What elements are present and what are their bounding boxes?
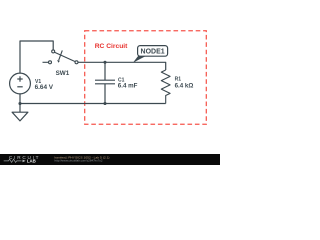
junction node dot at capacitor bottom bbox=[103, 102, 106, 105]
svg-text:RC Circuit: RC Circuit bbox=[95, 43, 128, 50]
svg-text:http://www.circuitlab.com/c284: http://www.circuitlab.com/c2847hx7u2 bbox=[55, 159, 103, 163]
ground bbox=[12, 112, 28, 121]
svg-text:6.64 V: 6.64 V bbox=[35, 84, 54, 91]
svg-text:NODE1: NODE1 bbox=[141, 49, 165, 56]
wire from switch to resistor branch (top rail) bbox=[78, 62, 166, 70]
footer bar bbox=[0, 154, 220, 165]
bottom rail wire from resistor back to V1 bbox=[20, 103, 166, 105]
svg-text:6.4 mF: 6.4 mF bbox=[118, 83, 138, 90]
CircuitLab logo arrow bbox=[23, 160, 26, 163]
node NODE1 bubble bbox=[138, 46, 168, 57]
svg-text:SW1: SW1 bbox=[56, 70, 70, 77]
RC Circuit boundary box bbox=[85, 31, 207, 125]
node NODE1 pointer tail bbox=[133, 56, 147, 63]
resistor R1 bbox=[161, 70, 170, 104]
svg-text:LAB: LAB bbox=[27, 158, 36, 163]
capacitor C1 bbox=[95, 62, 115, 103]
CircuitLab logo wire squiggle bbox=[4, 159, 22, 162]
voltage source V1 bbox=[10, 73, 31, 112]
junction node dot at capacitor top bbox=[103, 61, 106, 64]
switch SW1 bbox=[43, 50, 79, 64]
junction node dot at V1 bottom bbox=[18, 102, 21, 105]
svg-text:6.4 kΩ: 6.4 kΩ bbox=[175, 82, 194, 89]
wire from V1 plus terminal up and across to switch bbox=[20, 41, 53, 73]
